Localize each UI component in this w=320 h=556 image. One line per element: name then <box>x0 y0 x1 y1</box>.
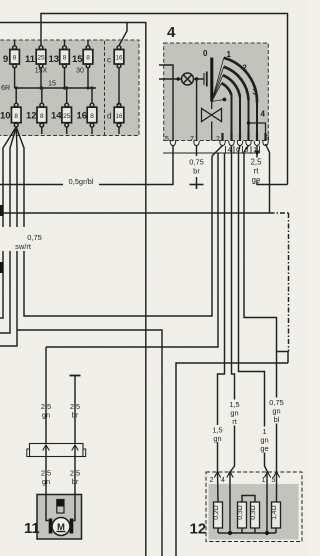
wire pin1 rt/ge power <box>257 146 288 185</box>
pin3 internal takeoff <box>249 123 266 141</box>
valve symbol (bowtie) <box>202 102 222 141</box>
blower motor 11 box <box>37 495 82 540</box>
wire sw/rt 2 lower <box>0 251 10 333</box>
contact bars <box>203 73 205 85</box>
wire label 0,75 gn bl <box>268 398 285 425</box>
fuse 16 <box>87 88 97 134</box>
wire comp12 pin4 feed <box>230 146 235 473</box>
internal stubs to pins <box>196 79 198 141</box>
wire label 1,5 gn <box>211 425 224 443</box>
connector above motor <box>27 444 86 457</box>
bottom bus <box>218 532 276 534</box>
contact dot <box>223 98 227 102</box>
wire motor br with terminal bar <box>70 375 81 377</box>
arc position 4 <box>224 58 257 103</box>
wire pin2 to motor feed corner <box>46 153 218 347</box>
wire fuse11 top feed <box>41 14 288 185</box>
motor M circle <box>52 518 70 536</box>
wire branch to long vertical x162 <box>17 330 162 556</box>
motor brushes <box>49 519 53 534</box>
wire label 0,75 sw/rt <box>0 229 48 251</box>
wire net X to left edge <box>0 212 270 214</box>
switch unit 4 (gray box) <box>164 43 269 141</box>
fuse d <box>114 103 124 134</box>
lever position 0 bar <box>210 58 213 102</box>
motor thermo element <box>57 500 64 514</box>
comp12 pin chevrons <box>214 472 279 478</box>
arc position 1 <box>222 83 232 95</box>
arrow on pin1 wire <box>255 151 260 157</box>
wire motor gn drop <box>45 347 47 444</box>
wire label 0,75 br <box>189 156 205 177</box>
ground symbol <box>190 185 204 190</box>
pin cups <box>170 141 268 146</box>
wire pin7 ground <box>196 146 198 185</box>
fuse 12 <box>37 88 47 134</box>
fan-out wires from fuse 10 <box>3 127 16 227</box>
fuse box column separator <box>104 41 106 135</box>
fuse box S (gray panel) <box>0 40 139 136</box>
fuse 15 <box>83 40 93 88</box>
arc position 2 <box>223 75 240 97</box>
resistor R4 <box>272 502 281 528</box>
fuse 13 <box>60 40 70 88</box>
wire comp12 pin2 feed <box>218 153 225 472</box>
wire pin5 gr/bl <box>0 146 173 185</box>
comp12 internal wires <box>217 472 220 502</box>
bus junction dots <box>15 86 94 89</box>
bus 15 <box>15 87 96 89</box>
wire 30-feed from left edge to long vertical <box>0 23 146 556</box>
wire pin3 diag <box>266 144 270 213</box>
lever fan lines <box>212 58 224 102</box>
resistor pack 12 dashed box <box>206 472 302 542</box>
wire label 2,5 rt/ge <box>250 158 264 185</box>
pin stubs thick <box>223 133 266 141</box>
wire H1 to vertical x176 <box>176 363 288 556</box>
fuse 14 <box>62 88 72 134</box>
wire fuse c tap <box>119 23 127 46</box>
pin label cells <box>163 146 260 153</box>
resistor R1 <box>214 502 223 528</box>
bridge R2-R3 <box>242 496 255 503</box>
fuse 11 <box>36 46 46 88</box>
wire sw/rt 3 lower <box>0 251 17 346</box>
wire label 1 gn ge <box>258 427 271 454</box>
wire comp12 pin5 feed <box>244 146 277 473</box>
wire sw/rt 1 lower <box>0 251 3 318</box>
fuse 10 <box>11 88 21 127</box>
lamp feed wires <box>159 65 173 141</box>
wire comp12 pin1 feed <box>239 146 268 473</box>
wire label 0,5gr/bl <box>63 177 99 186</box>
wire notch to gn/bl <box>277 352 289 364</box>
resistor R3 <box>251 502 260 528</box>
arc position 3 <box>224 67 249 100</box>
wire dashed pin3 branch <box>270 213 289 352</box>
wire sw/rt 4 to switch pin2 <box>24 146 223 317</box>
wire label 1,5 gn rt <box>228 400 241 427</box>
lamp L <box>177 73 199 85</box>
page artifacts <box>0 205 4 273</box>
resistor R2 <box>238 502 247 528</box>
fuse 9 <box>10 40 20 88</box>
motor wires inside <box>46 495 49 521</box>
fuse c <box>114 46 124 105</box>
